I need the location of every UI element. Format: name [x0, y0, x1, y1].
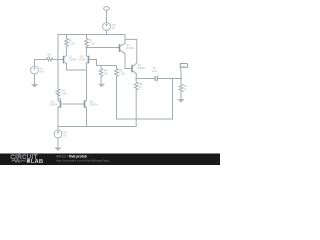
svg-text:Q6: Q6	[90, 100, 94, 104]
svg-text:R8: R8	[139, 82, 143, 86]
svg-text:R7: R7	[184, 84, 188, 88]
wire feedback	[117, 79, 173, 120]
node VCC flag	[104, 7, 110, 11]
svg-text:Q2: Q2	[80, 55, 84, 59]
wire VCC rail	[58, 34, 125, 36]
svg-text:5mV: 5mV	[40, 71, 45, 73]
svg-text:100k: 100k	[62, 93, 68, 95]
wire Q3 collector to rail	[124, 35, 126, 44]
svg-text:2N3904: 2N3904	[79, 60, 88, 62]
wire V3 to ground	[57, 138, 59, 147]
svg-text:R5: R5	[119, 68, 123, 72]
wire mirror right emitter to rail	[86, 108, 88, 127]
wire cap to out	[157, 78, 181, 80]
logo plug icon	[27, 159, 30, 162]
svg-text:R3: R3	[62, 88, 66, 92]
wire mirror left emitter to rail and V3	[57, 108, 59, 130]
wire diode connection	[58, 99, 61, 101]
svg-text:R2: R2	[89, 38, 93, 42]
wire tail	[67, 70, 87, 101]
voltage source V1	[31, 66, 39, 74]
wire VEE rail	[58, 126, 136, 128]
svg-text:C1: C1	[153, 66, 157, 70]
resistor R4	[99, 66, 103, 84]
transistor Q1	[64, 55, 78, 65]
wire output to cap	[136, 78, 154, 80]
watermark bar	[0, 153, 220, 165]
transistor Q6 mirror right	[85, 100, 99, 109]
svg-text:http://circuitlab.com/c/4qc48k: http://circuitlab.com/c/4qc48kmqp7pgq	[56, 159, 109, 163]
wire left branch vertical	[57, 35, 59, 90]
svg-text:9V: 9V	[112, 28, 115, 30]
svg-text:1.15k: 1.15k	[69, 43, 75, 45]
svg-text:R6: R6	[48, 52, 52, 56]
wire input	[35, 59, 64, 61]
resistor R5	[115, 66, 119, 120]
ground (V3)	[55, 147, 62, 151]
svg-text:2N3904: 2N3904	[50, 105, 59, 107]
svg-text:R1: R1	[69, 38, 73, 42]
resistor R7 load	[179, 79, 183, 99]
node flag out	[180, 68, 181, 78]
svg-text:V2: V2	[112, 23, 116, 27]
wire V2 to rail	[106, 31, 108, 35]
resistor R8 emitter	[134, 79, 138, 127]
wire R3 to mirror	[57, 95, 59, 101]
wire V1 drop	[34, 60, 36, 66]
svg-text:LAB: LAB	[31, 159, 43, 165]
wire stage2 base	[87, 47, 120, 49]
resistor R3	[56, 89, 60, 96]
capacitor C1	[155, 76, 157, 81]
resistor R6	[47, 58, 54, 61]
transistor Q3	[120, 43, 136, 54]
svg-text:V3: V3	[64, 130, 68, 134]
svg-text:9V: 9V	[64, 135, 67, 137]
svg-text:1.15k: 1.15k	[119, 73, 125, 75]
transistor Q2 (mirrored)	[79, 55, 89, 65]
svg-text:2N3904: 2N3904	[137, 68, 146, 70]
wire V1 to ground	[34, 74, 36, 84]
svg-text:2N3904: 2N3904	[126, 48, 135, 50]
svg-text:2N3904: 2N3904	[90, 105, 99, 107]
voltage source V3	[54, 130, 62, 138]
ground (R7)	[178, 99, 185, 103]
svg-text:R4: R4	[104, 68, 108, 72]
wire Q3 emitter to Q4 base	[125, 54, 132, 69]
svg-text:Q5: Q5	[51, 100, 55, 104]
svg-text:Q3: Q3	[126, 43, 130, 47]
svg-text:Q1: Q1	[69, 55, 73, 59]
resistor R2	[85, 35, 89, 56]
wire Q1 emitter down	[66, 64, 68, 70]
wire Q2 base to feedback node	[89, 60, 117, 66]
svg-text:V1: V1	[40, 66, 44, 70]
svg-text:Q4: Q4	[137, 63, 141, 67]
junction out node	[180, 78, 182, 80]
wire collector branch to Q4 collector	[125, 39, 137, 63]
svg-text:10uF: 10uF	[152, 71, 158, 73]
transistor Q5 mirror left (diode connected)	[50, 100, 61, 109]
wire Q2 emitter down	[85, 64, 88, 70]
resistor R1	[65, 35, 69, 56]
wire Q4 emitter to output node	[135, 74, 137, 79]
junction output node	[135, 78, 137, 80]
svg-text:1.15k: 1.15k	[89, 43, 95, 45]
ground (V1)	[31, 84, 38, 88]
svg-text:2N3904: 2N3904	[69, 60, 78, 62]
wire flag to V2	[106, 10, 108, 22]
junction R2/stage2	[86, 47, 88, 49]
logo zigzag	[12, 159, 26, 162]
svg-text:out: out	[181, 64, 185, 68]
wire mirror base line	[61, 103, 85, 105]
voltage source V2	[103, 23, 111, 31]
transistor Q4	[132, 63, 146, 74]
ground (R4)	[98, 84, 105, 88]
